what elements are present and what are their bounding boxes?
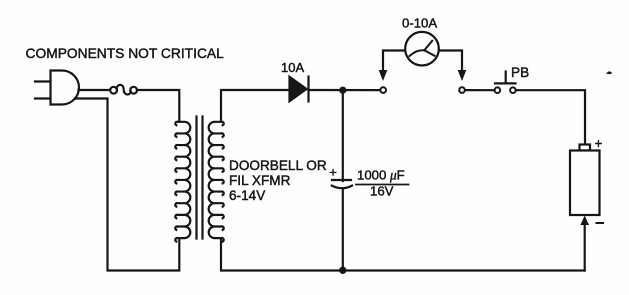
wire: right meter drop with arrow xyxy=(439,51,466,82)
label: COMPONENTS NOT CRITICAL xyxy=(26,46,225,61)
wire: right terminal to push button xyxy=(466,89,494,91)
wire: DC ground rail xyxy=(222,269,585,271)
wire: secondary bottom to DC ground rail xyxy=(220,238,222,270)
ammeter M1 xyxy=(405,32,439,66)
junction dot at capacitor bottom xyxy=(339,267,346,274)
wire: diode cathode to junction to left meter terminal xyxy=(309,89,380,91)
capacitor C1 xyxy=(332,180,352,188)
svg-text:DOORBELL OR: DOORBELL OR xyxy=(229,158,327,173)
wire: battery negative to DC rail with up arrow xyxy=(580,216,589,271)
terminal: right meter hookup xyxy=(459,87,465,93)
svg-text:0-10A: 0-10A xyxy=(402,16,437,31)
label: battery minus xyxy=(597,222,604,224)
wire: push button to battery positive xyxy=(516,90,585,144)
svg-text:16V: 16V xyxy=(370,184,394,199)
wire: secondary top to diode anode xyxy=(221,90,290,122)
svg-text:FIL XFMR: FIL XFMR xyxy=(229,173,291,188)
fraction bar of capacitor value xyxy=(356,184,409,186)
svg-text:+: + xyxy=(595,136,603,151)
wire: plug cord bottom, down left side to AC bottom rail xyxy=(75,99,178,271)
push button PB xyxy=(495,72,516,93)
svg-text:PB: PB xyxy=(511,65,529,80)
svg-text:COMPONENTS NOT CRITICAL: COMPONENTS NOT CRITICAL xyxy=(26,46,225,61)
wire: plug cord top to fuse xyxy=(79,89,111,91)
label: 10A xyxy=(281,60,304,75)
svg-text:10A: 10A xyxy=(281,60,304,75)
transformer T1 core xyxy=(197,117,203,239)
speck top right xyxy=(607,72,611,74)
label: 0-10A xyxy=(402,16,437,31)
label: battery plus xyxy=(595,136,603,151)
transformer T1 secondary winding xyxy=(209,122,224,242)
svg-text:+: + xyxy=(329,165,337,180)
label: 1000 uF / 16V xyxy=(357,168,405,199)
wire: primary bottom to AC rail xyxy=(178,238,180,270)
terminal: left meter hookup xyxy=(380,87,386,93)
battery B1 xyxy=(570,145,600,216)
wire: fuse to transformer primary xyxy=(137,90,179,122)
label: capacitor plus xyxy=(329,165,337,180)
label: PB xyxy=(511,65,529,80)
junction dot at capacitor top xyxy=(339,87,346,94)
wire: junction down to capacitor xyxy=(342,90,344,181)
transformer T1 primary winding xyxy=(175,122,190,242)
label: DOORBELL OR / FIL XFMR / 6-14V xyxy=(229,158,327,203)
diode D1 xyxy=(290,77,309,102)
ac plug P1 xyxy=(35,71,79,105)
svg-text:1000 μF: 1000 μF xyxy=(357,168,405,183)
wire: left meter drop with arrow xyxy=(379,51,405,82)
svg-text:6-14V: 6-14V xyxy=(229,188,265,203)
wire: capacitor to bottom junction xyxy=(342,189,344,271)
fuse F1 xyxy=(110,85,137,95)
